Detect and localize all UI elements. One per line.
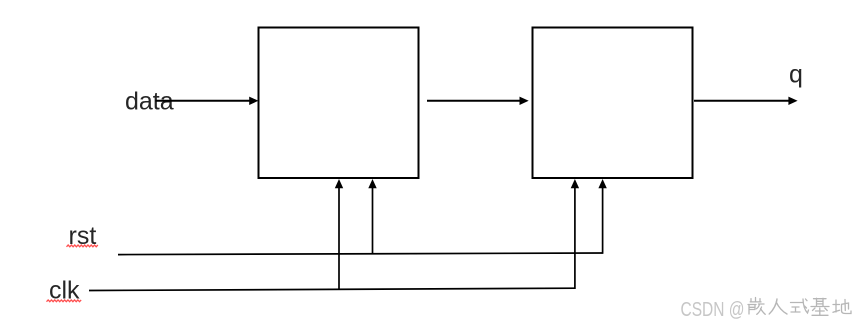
wire rst branch into U1 — [368, 179, 376, 254]
watermark CSDN @ — [681, 298, 745, 321]
wire q output — [694, 97, 798, 105]
svg-text:CSDN @: CSDN @ — [681, 298, 745, 321]
flip-flop block U1 — [259, 28, 419, 179]
flip-flop block U2 — [533, 28, 693, 179]
label data — [125, 88, 174, 116]
spellcheck squiggle under clk — [47, 300, 82, 302]
watermark hanzi ji — [811, 298, 829, 315]
watermark hanzi qian — [748, 298, 765, 315]
label q — [789, 61, 803, 89]
spellcheck squiggle under rst — [67, 245, 98, 247]
label rst — [69, 222, 97, 250]
label clk — [49, 277, 80, 305]
wire rst horizontal — [118, 253, 603, 255]
wire clk horizontal — [89, 288, 575, 290]
wire clk branch into U1 — [335, 179, 343, 289]
watermark hanzi ru — [769, 299, 787, 314]
wire rst riser into U2 — [598, 179, 606, 254]
wire data input — [156, 97, 259, 105]
wire clk riser into U2 — [571, 179, 579, 289]
wire U1 q to U2 d — [427, 97, 529, 105]
watermark hanzi di — [833, 300, 851, 314]
watermark hanzi shi — [791, 299, 809, 313]
svg-text:q: q — [789, 61, 803, 89]
